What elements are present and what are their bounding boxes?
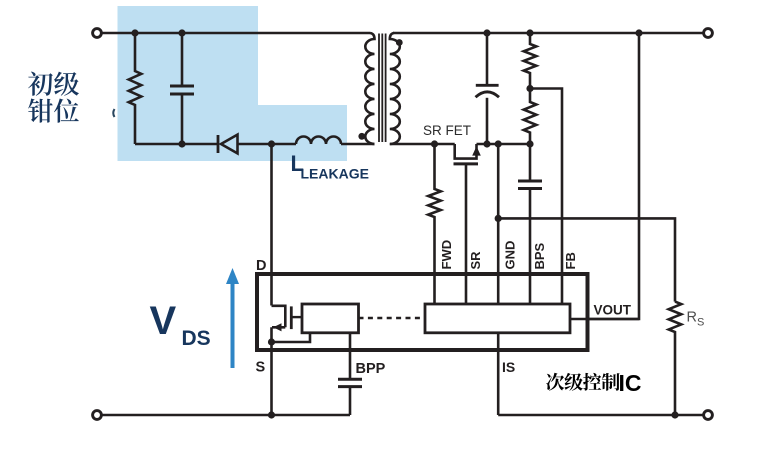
leakage inductor: [296, 137, 341, 145]
svg-text:DS: DS: [182, 327, 211, 350]
transformer core: [378, 34, 380, 143]
svg-text:S: S: [256, 360, 266, 376]
VOUT wire: [588, 33, 640, 319]
wire top rail primary: [102, 32, 370, 35]
S pin wire: [270, 342, 273, 415]
wire secondary rail: [390, 143, 455, 146]
svg-text:R: R: [687, 310, 697, 326]
input terminal bottom-left: [93, 411, 102, 420]
SR FET Q1: [454, 144, 481, 164]
output terminal bottom-right: [704, 411, 713, 420]
resistor RS: [669, 302, 682, 415]
FB pin wire: [530, 89, 562, 305]
node rail / GND: [495, 140, 502, 147]
label primary clamp (Chinese): [28, 72, 53, 96]
wire inductor to primary: [341, 143, 375, 146]
IS wire: [497, 333, 500, 415]
controller block: [425, 304, 570, 333]
node RS bottom: [671, 411, 678, 418]
svg-text:LEAKAGE: LEAKAGE: [301, 166, 369, 182]
svg-text:FWD: FWD: [439, 240, 454, 270]
transformer primary winding: [365, 33, 374, 144]
node divider mid: [526, 85, 533, 92]
node clamp bottom / D line: [268, 140, 275, 147]
stray mark: [113, 109, 114, 117]
node S / bottom rail: [268, 411, 275, 418]
clamp capacitor: [181, 33, 184, 86]
D pin wire: [270, 144, 273, 306]
node top rail / VOUT: [635, 29, 642, 36]
svg-text:V: V: [150, 299, 177, 343]
node top rail / capacitor: [178, 29, 185, 36]
output terminal top-right: [704, 29, 713, 38]
node top rail / resistor: [131, 29, 138, 36]
label secondary control IC (Chinese): [546, 373, 564, 391]
wire top rail secondary: [393, 32, 703, 35]
node rail / cap bottom: [483, 140, 490, 147]
primary phase dot: [358, 133, 365, 140]
svg-text:SR FET: SR FET: [423, 123, 471, 138]
svg-text:VOUT: VOUT: [594, 303, 632, 318]
GND pin wire: [497, 144, 500, 304]
wire bottom rail primary: [102, 414, 350, 417]
FWD resistor: [428, 144, 441, 304]
SR pin wire: [465, 164, 468, 304]
driver to source wire: [272, 333, 311, 342]
secondary control IC U1: [257, 274, 588, 350]
svg-text:IC: IC: [619, 370, 642, 396]
divider resistor upper: [524, 33, 537, 89]
primary clamp highlight: [118, 6, 348, 161]
svg-text:S: S: [697, 317, 704, 329]
node clamp bottom / capacitor: [178, 140, 185, 147]
svg-text:GND: GND: [503, 241, 518, 270]
VDS arrow: [231, 281, 235, 368]
wire clamp bottom: [135, 143, 217, 146]
svg-text:BPP: BPP: [356, 361, 386, 377]
secondary output capacitor (polarized): [486, 33, 489, 85]
clamp diode D1: [218, 135, 296, 154]
node top rail / cap: [483, 29, 490, 36]
svg-text:IS: IS: [502, 359, 515, 375]
clamp resistor: [129, 33, 142, 144]
svg-text:D: D: [256, 258, 266, 274]
internal power MOSFET: [272, 306, 302, 342]
node rail / BPS: [526, 140, 533, 147]
svg-text:BPS: BPS: [532, 242, 547, 269]
svg-text:SR: SR: [468, 251, 483, 270]
dashed connection: [359, 317, 426, 320]
driver block: [302, 304, 359, 333]
node top rail / divider: [526, 29, 533, 36]
transformer secondary winding: [390, 33, 400, 144]
input terminal top-left: [93, 29, 102, 38]
secondary phase dot: [396, 39, 403, 46]
wire bottom rail secondary: [498, 414, 703, 417]
BPS capacitor: [529, 144, 532, 181]
divider resistor lower: [524, 89, 537, 145]
wire GND sense line: [498, 218, 675, 301]
node rail / FWD: [431, 140, 438, 147]
VOUT stub: [570, 318, 639, 321]
node internal source: [268, 338, 275, 345]
node GND sense: [495, 215, 502, 222]
BPP capacitor: [349, 333, 352, 379]
svg-text:FB: FB: [563, 252, 578, 269]
